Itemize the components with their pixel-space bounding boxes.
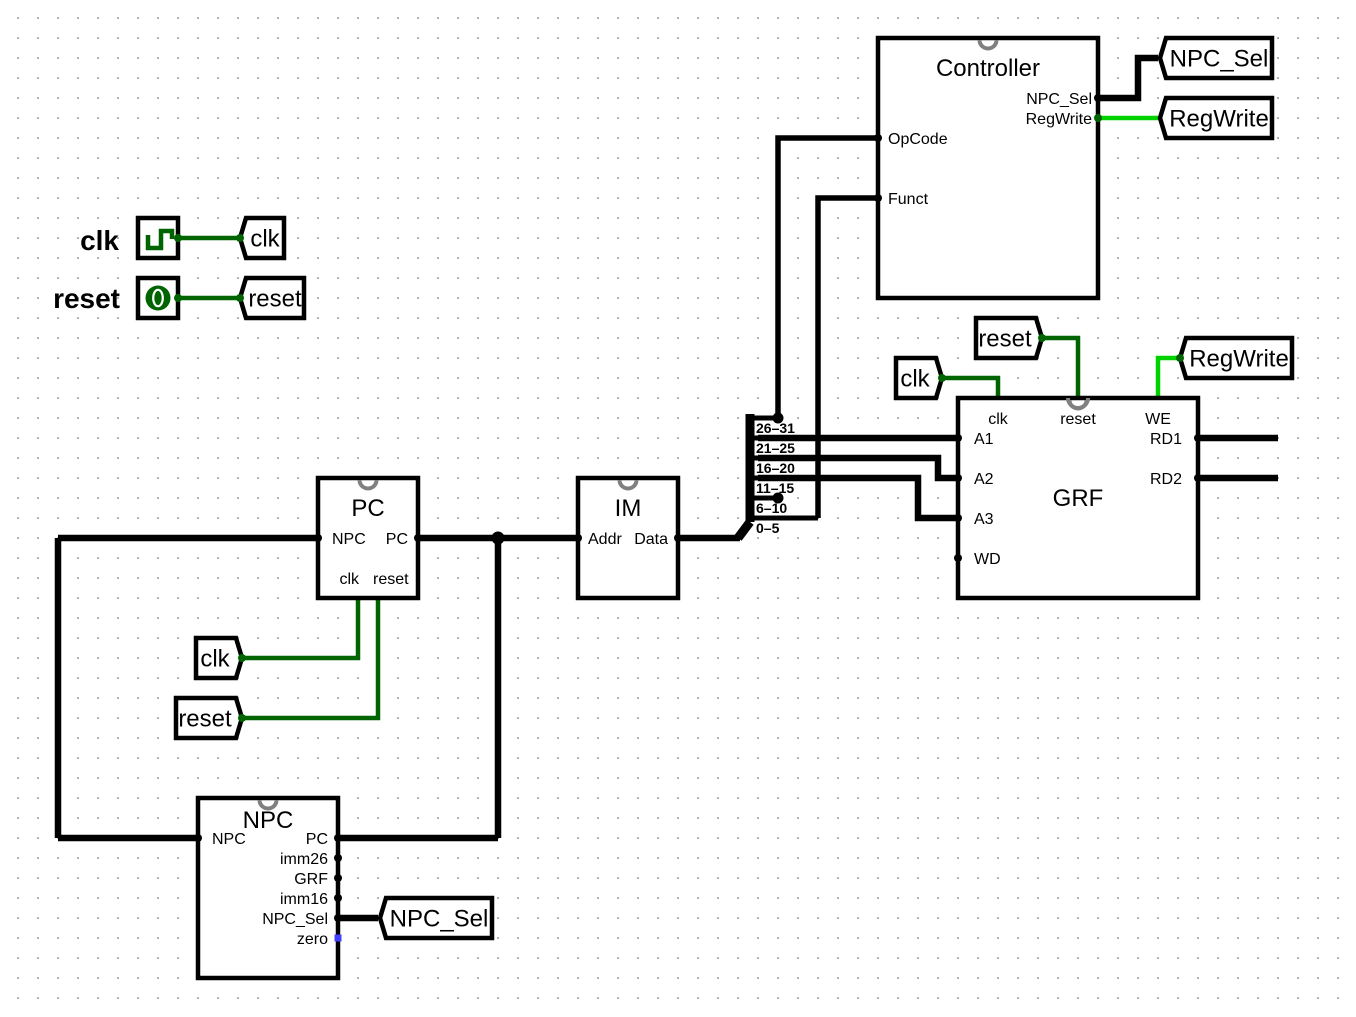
svg-text:PC: PC (306, 831, 328, 848)
GRF port A3 (954, 514, 962, 522)
svg-text:reset: reset (373, 571, 409, 588)
tunnel reset (to PC) (176, 698, 242, 738)
svg-text:clk: clk (988, 411, 1009, 428)
svg-text:clk: clk (80, 225, 119, 256)
svg-text:clk: clk (200, 646, 230, 673)
wire NPC.NPC_Sel to tunnel (338, 915, 378, 922)
subcircuit NPC (198, 798, 338, 978)
pin reset port (174, 294, 182, 302)
junction at (498,538) (492, 532, 505, 545)
wire splitter 21-25 to GRF.A1 (758, 435, 958, 442)
NPC port imm26 (334, 854, 342, 862)
wire splitter 0-5 to Controller.Funct (818, 198, 878, 518)
svg-text:GRF: GRF (1053, 485, 1104, 512)
svg-text:WD: WD (974, 551, 1001, 568)
wire clk tunnel to PC.clk (238, 598, 358, 658)
svg-text:reset: reset (978, 326, 1032, 353)
wire splitter 26-31 to Controller.OpCode (778, 138, 878, 418)
Controller port OpCode (874, 134, 882, 142)
svg-text:imm16: imm16 (280, 891, 328, 908)
tunnel RegWrite port dot (1176, 354, 1184, 362)
wire reset tunnel to PC.reset (238, 598, 378, 718)
svg-text:GRF: GRF (294, 871, 328, 888)
NPC port PC (334, 834, 342, 842)
wire IM.Data to splitter (678, 535, 740, 542)
wire clk pin to clk tunnel (178, 236, 238, 241)
GRF port RD2 (1194, 474, 1202, 482)
tunnel reset (PC) apex dot (238, 714, 246, 722)
tunnel NPC_Sel (from Controller) (1160, 38, 1272, 78)
svg-text:Data: Data (634, 531, 668, 548)
wire left vertical feedback (55, 538, 62, 838)
svg-text:PC: PC (386, 531, 408, 548)
NPC port GRF (334, 874, 342, 882)
junction splitter 26-31 leg (773, 413, 784, 424)
pin clk (clock input) (138, 218, 178, 258)
svg-text:reset: reset (53, 283, 120, 314)
GRF top notch over reset port (1068, 398, 1088, 408)
svg-text:Controller: Controller (936, 55, 1040, 82)
svg-text:6–10: 6–10 (756, 500, 787, 516)
NPC port zero (floating, blue) (335, 935, 342, 942)
wire splitter 16-20 to GRF.A2 (758, 458, 958, 478)
tunnel clk apex dot (236, 234, 244, 242)
svg-text:RegWrite: RegWrite (1169, 106, 1269, 133)
tunnel NPC_Sel (to NPC) (380, 898, 492, 938)
svg-text:OpCode: OpCode (888, 131, 948, 148)
tunnel RegWrite (to GRF WE) (1180, 338, 1292, 378)
svg-text:PC: PC (351, 495, 384, 522)
wire Controller.NPC_Sel to tunnel (1098, 58, 1158, 98)
tunnel clk (to PC) (196, 638, 242, 678)
PC port NPC (314, 534, 322, 542)
svg-text:RD2: RD2 (1150, 471, 1182, 488)
svg-text:A1: A1 (974, 431, 994, 448)
subcircuit IM (578, 478, 678, 598)
subcircuit GRF (958, 398, 1198, 598)
wire junction down to NPC row (495, 538, 502, 838)
tunnel clk (PC) apex dot (238, 654, 246, 662)
IM port Addr (574, 534, 582, 542)
stub end dot 6-10 leg (773, 493, 784, 504)
tunnel reset (GRF) apex dot (1038, 334, 1046, 342)
svg-text:RD1: RD1 (1150, 431, 1182, 448)
svg-text:clk: clk (339, 571, 360, 588)
wire reset tunnel to GRF.reset (1038, 338, 1078, 398)
GRF port A2 (954, 474, 962, 482)
tunnel clk (from clk pin) (240, 218, 284, 258)
wire reset pin to reset tunnel (178, 296, 238, 301)
svg-text:NPC_Sel: NPC_Sel (1170, 46, 1269, 73)
wire GRF.RD1 out (1198, 435, 1278, 442)
svg-text:RegWrite: RegWrite (1026, 111, 1092, 128)
svg-text:clk: clk (900, 366, 930, 393)
svg-text:21–25: 21–25 (756, 440, 795, 456)
svg-text:16–20: 16–20 (756, 460, 795, 476)
NPC port NPC (194, 834, 202, 842)
wire splitter 11-15 to GRF.A3 (758, 478, 958, 518)
tunnel RegWrite (from Controller) (1160, 98, 1272, 138)
svg-text:reset: reset (178, 706, 232, 733)
PC port PC (414, 534, 422, 542)
svg-text:reset: reset (248, 286, 302, 313)
svg-text:Funct: Funct (888, 191, 929, 208)
wire splitter 26-31 leg (758, 416, 778, 421)
GRF port A1 (954, 434, 962, 442)
GRF port RD1 (1194, 434, 1202, 442)
wire RegWrite tunnel to GRF.WE (high) (1158, 358, 1178, 398)
tunnel clk (to GRF) (896, 358, 942, 398)
svg-text:zero: zero (297, 931, 328, 948)
svg-text:NPC: NPC (243, 807, 294, 834)
wire splitter 0-5 leg (758, 516, 818, 521)
NPC port NPC_Sel (334, 914, 342, 922)
svg-text:clk: clk (250, 226, 280, 253)
svg-text:Addr: Addr (588, 531, 622, 548)
svg-text:imm26: imm26 (280, 851, 328, 868)
svg-text:reset: reset (1060, 411, 1096, 428)
wire PC.PC to IM.Addr (418, 535, 578, 542)
subcircuit Controller (878, 38, 1098, 298)
Controller port NPC_Sel (1094, 94, 1102, 102)
svg-text:NPC_Sel: NPC_Sel (390, 906, 489, 933)
NPC port imm16 (334, 894, 342, 902)
wire Controller.RegWrite to tunnel (high) (1098, 116, 1158, 121)
svg-text:IM: IM (615, 495, 642, 522)
svg-text:0–5: 0–5 (756, 520, 780, 536)
svg-text:A3: A3 (974, 511, 994, 528)
wire GRF.RD2 out (1198, 475, 1278, 482)
svg-text:WE: WE (1145, 411, 1171, 428)
Controller port RegWrite (1094, 114, 1102, 122)
pin clk port (174, 234, 182, 242)
svg-text:NPC: NPC (212, 831, 246, 848)
wire to NPC.PC input (338, 835, 498, 842)
svg-text:A2: A2 (974, 471, 994, 488)
tunnel clk (GRF) apex dot (938, 374, 946, 382)
wire into PC.NPC input (58, 535, 318, 542)
GRF port WD (unconnected) (954, 554, 962, 562)
svg-text:NPC_Sel: NPC_Sel (262, 911, 328, 928)
tunnel reset (from reset pin) (240, 278, 304, 318)
svg-text:NPC: NPC (332, 531, 366, 548)
tunnel reset apex dot (236, 294, 244, 302)
wire NPC.NPC output left (58, 835, 198, 842)
wire stub 6-10 leg (758, 496, 778, 501)
svg-text:NPC_Sel: NPC_Sel (1026, 91, 1092, 108)
IM port Data (674, 534, 682, 542)
wire clk tunnel to GRF.clk (938, 378, 998, 398)
tunnel reset (to GRF) (976, 318, 1042, 358)
splitter SP1 (instruction fields) (738, 414, 758, 538)
svg-text:RegWrite: RegWrite (1189, 346, 1289, 373)
subcircuit PC (318, 478, 418, 598)
Controller port Funct (874, 194, 882, 202)
pin reset (input, value 0) (138, 278, 178, 318)
